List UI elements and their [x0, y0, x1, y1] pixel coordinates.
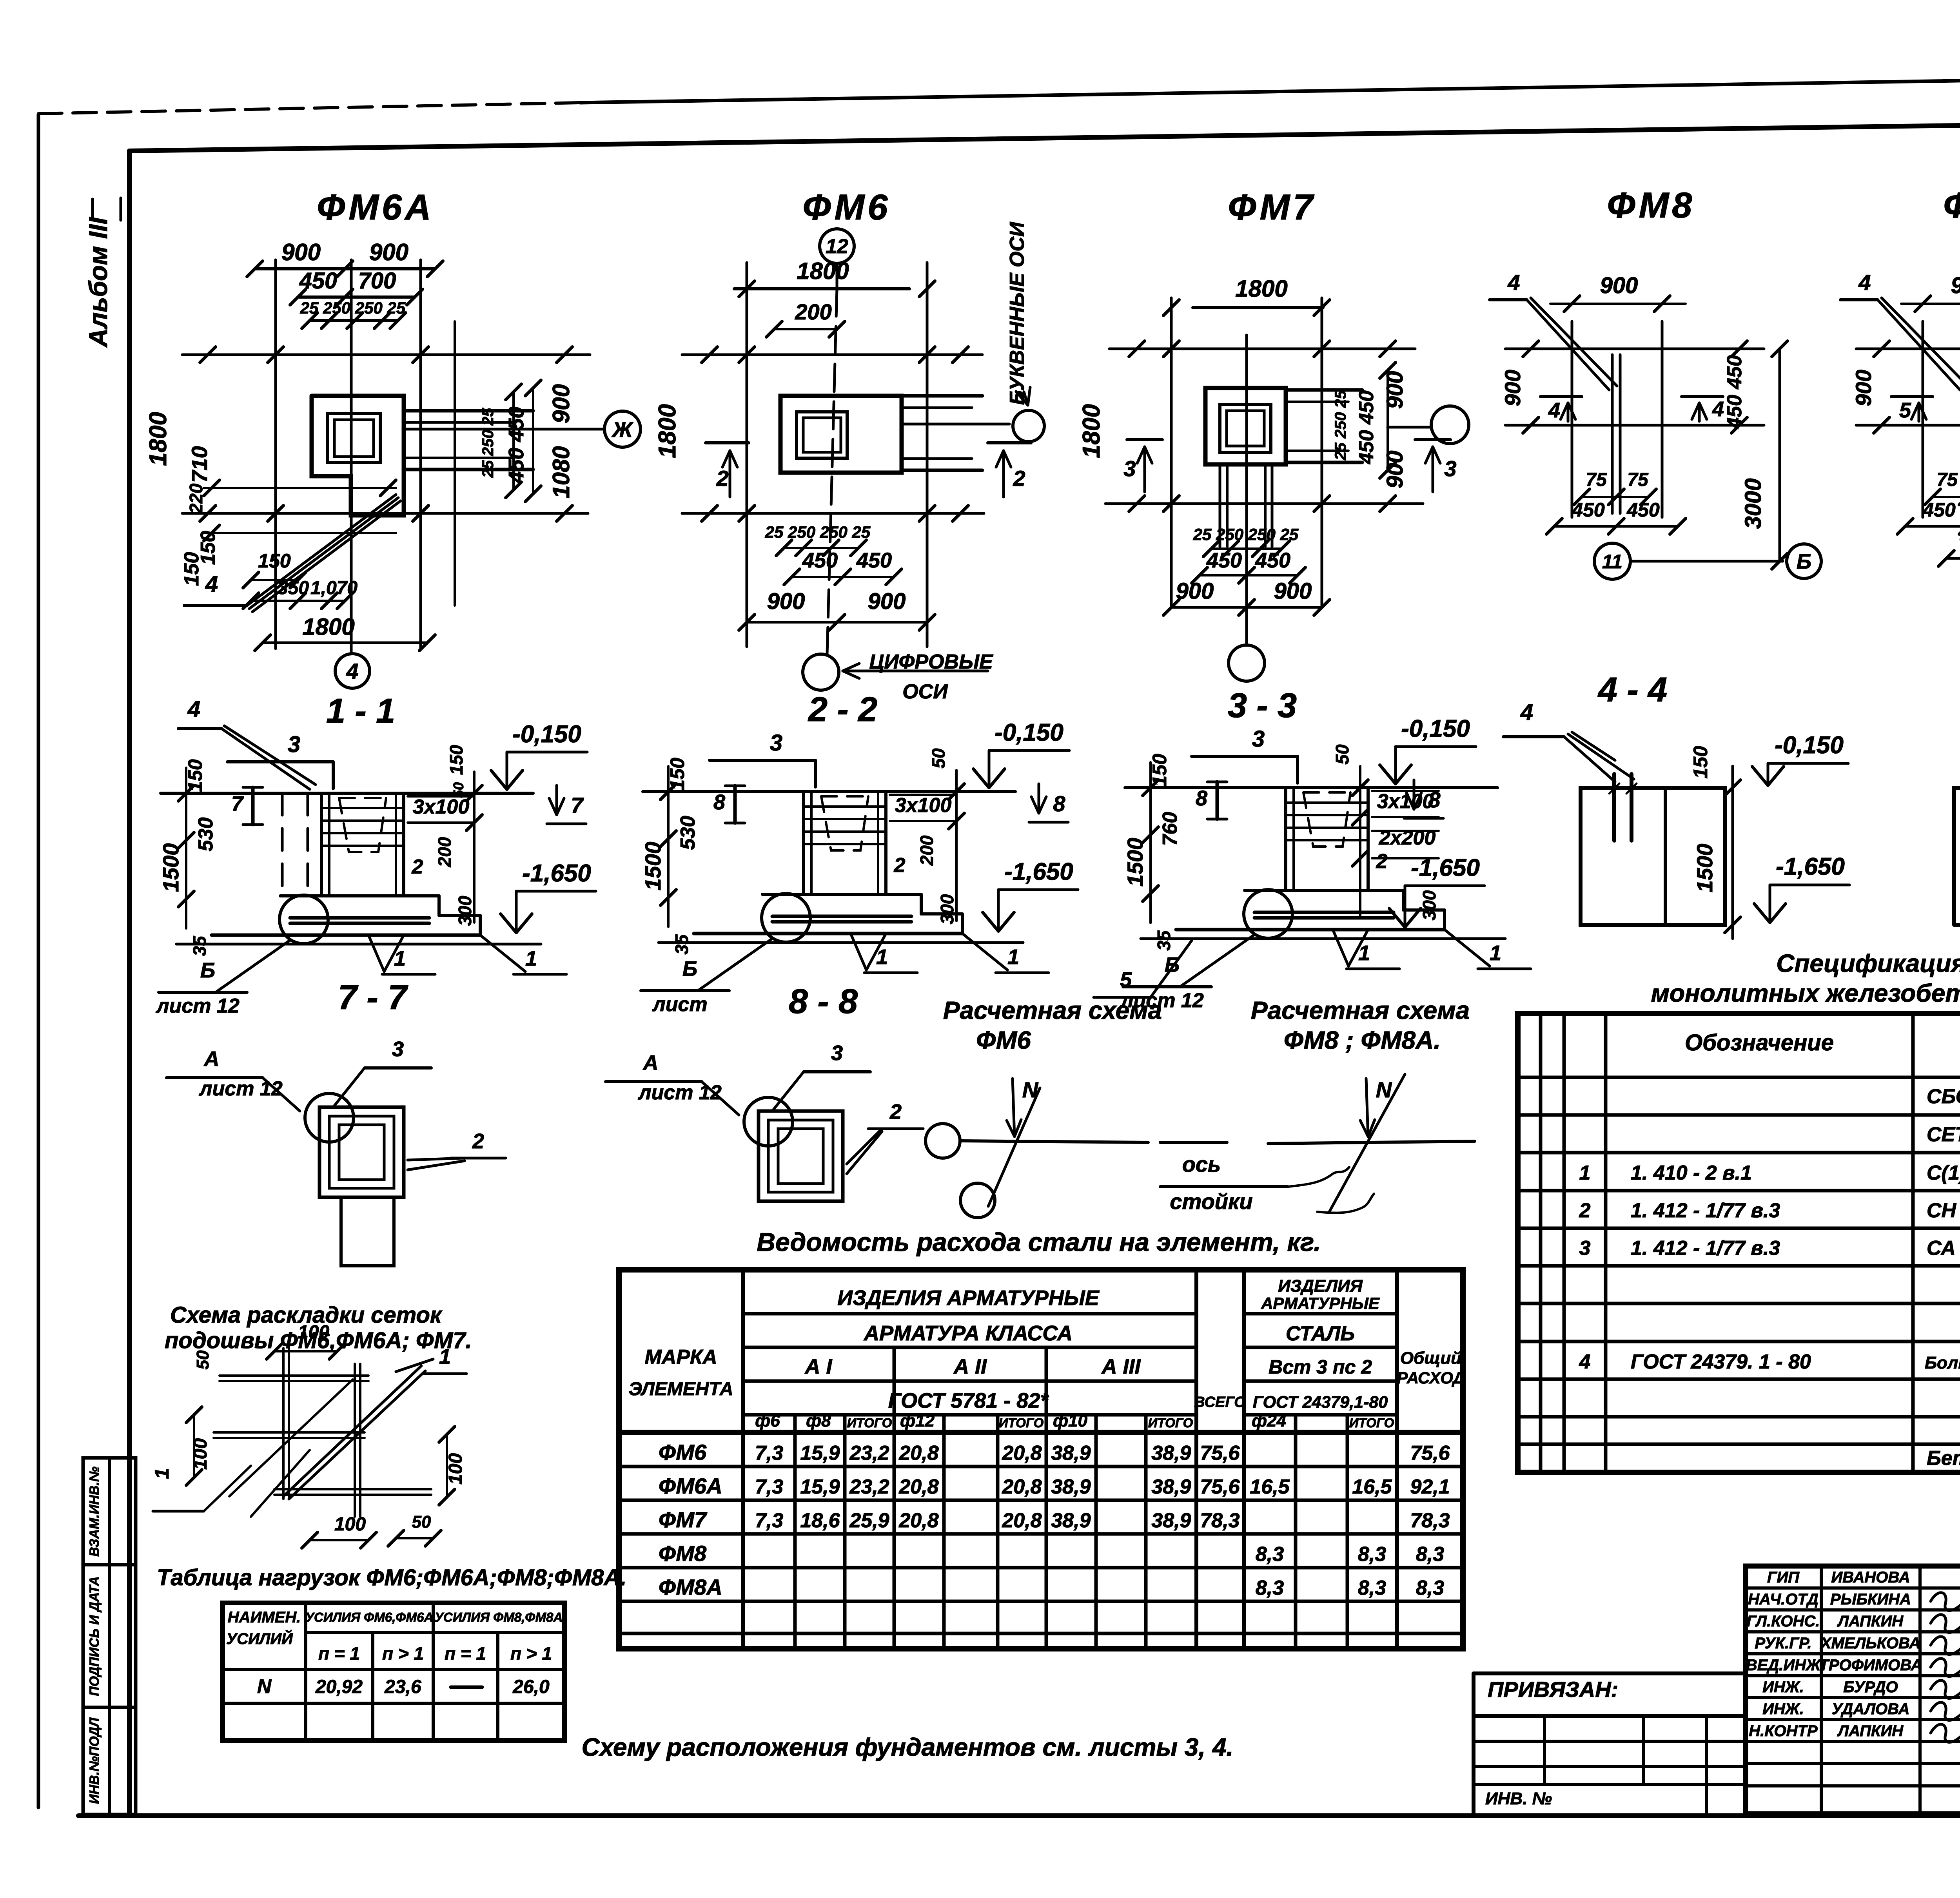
svg-text:ЭЛЕМЕНТА: ЭЛЕМЕНТА — [628, 1379, 733, 1399]
svg-text:ФМ6А: ФМ6А — [317, 187, 434, 227]
svg-text:стойки: стойки — [1170, 1189, 1252, 1214]
plan FM6A main horizontal axis — [182, 353, 590, 356]
plan FM7 section marker 3 right — [1415, 438, 1450, 441]
detail 7 - 7 pedestal below — [341, 1197, 394, 1266]
plan FM6 beam lines to right — [902, 394, 982, 398]
svg-text:3: 3 — [1579, 1237, 1591, 1260]
svg-text:15,9: 15,9 — [800, 1476, 840, 1498]
plan FM6A stakan inner squares — [327, 413, 380, 462]
svg-text:1: 1 — [394, 947, 406, 970]
section 3 - 3 detail circle — [1244, 890, 1292, 938]
plan FM6A pad outline — [312, 396, 404, 515]
svg-text:16,5: 16,5 — [1352, 1476, 1392, 1498]
mesh layout diagonal — [283, 1366, 421, 1496]
svg-text:450: 450 — [1572, 499, 1605, 521]
plan FM7 main horizontal axis — [1109, 348, 1415, 350]
plan ФМ8А section marker left — [1891, 395, 1933, 398]
svg-text:А: А — [203, 1047, 220, 1071]
svg-text:900: 900 — [1382, 451, 1408, 489]
svg-text:11: 11 — [1602, 551, 1622, 573]
svg-text:НАИМЕН.: НАИМЕН. — [228, 1609, 301, 1626]
svg-text:900: 900 — [281, 239, 321, 265]
svg-text:20,8: 20,8 — [898, 1442, 938, 1465]
svg-text:25 250 25: 25 250 25 — [1332, 390, 1349, 460]
svg-text:450: 450 — [856, 549, 892, 572]
svg-text:ПОДПИСЬ И ДАТА: ПОДПИСЬ И ДАТА — [87, 1576, 102, 1696]
svg-text:N: N — [1022, 1077, 1039, 1102]
steel table grid — [619, 1270, 1463, 1649]
svg-text:150: 150 — [180, 552, 203, 586]
section 3 - 3 footing mesh bars — [1254, 911, 1394, 914]
svg-text:ИТОГО: ИТОГО — [1148, 1416, 1193, 1430]
svg-text:38,9: 38,9 — [1051, 1476, 1091, 1498]
svg-text:100: 100 — [445, 1453, 466, 1485]
svg-text:ХМЕЛЬКОВА: ХМЕЛЬКОВА — [1820, 1635, 1920, 1652]
svg-text:Схему расположения фундаменто: Схему расположения фундаментов см. листы… — [582, 1733, 1234, 1761]
svg-text:1800: 1800 — [654, 404, 681, 458]
plan FM7 right axis circle — [1388, 426, 1431, 429]
plan FM7 beam right — [1286, 388, 1362, 392]
plan FM6 lower horizontal axis — [682, 512, 984, 515]
svg-text:20,8: 20,8 — [1002, 1476, 1042, 1498]
section 1 - 1 left dim stack — [185, 768, 187, 928]
svg-text:ФМ8: ФМ8 — [1607, 185, 1695, 225]
svg-text:А I: А I — [804, 1355, 832, 1378]
svg-text:Б: Б — [200, 959, 215, 982]
svg-text:ВЗАМ.ИНВ.№: ВЗАМ.ИНВ.№ — [87, 1467, 102, 1557]
svg-text:-0,150: -0,150 — [1401, 715, 1470, 742]
svg-text:лист 12: лист 12 — [198, 1077, 283, 1100]
plan ФМ8 anchor bolts — [1611, 355, 1614, 513]
svg-text:ФМ6: ФМ6 — [803, 187, 891, 227]
svg-text:900: 900 — [1176, 578, 1214, 604]
svg-text:3: 3 — [1444, 456, 1456, 481]
svg-text:3: 3 — [288, 732, 300, 757]
axis circle 12 top — [820, 229, 854, 263]
svg-text:лист 12: лист 12 — [155, 995, 240, 1017]
plan ФМ8 upper horizontal line — [1505, 348, 1764, 350]
svg-text:7,3: 7,3 — [755, 1509, 783, 1532]
svg-text:ФМ7: ФМ7 — [659, 1507, 708, 1532]
svg-text:8,3: 8,3 — [1416, 1577, 1444, 1599]
svg-text:УСИЛИЙ: УСИЛИЙ — [226, 1629, 293, 1648]
svg-text:Вст 3 пс 2: Вст 3 пс 2 — [1269, 1356, 1372, 1378]
svg-text:3: 3 — [1252, 726, 1265, 752]
plan FM7 column below pad — [1219, 464, 1221, 547]
plan FM6A lower horizontal axis — [182, 512, 588, 515]
svg-text:530: 530 — [194, 818, 217, 852]
svg-text:УСИЛИЯ ФМ8,ФМ8А: УСИЛИЯ ФМ8,ФМ8А — [435, 1610, 563, 1624]
svg-text:900: 900 — [767, 589, 805, 614]
svg-text:38,9: 38,9 — [1151, 1442, 1191, 1465]
svg-text:220: 220 — [186, 483, 206, 514]
svg-text:900: 900 — [1851, 370, 1876, 406]
design scheme FM8 drawing — [1268, 1141, 1475, 1144]
title block outline — [1746, 1566, 1960, 1814]
svg-text:1: 1 — [1007, 945, 1019, 969]
plan FM6 vertical axes — [746, 263, 748, 647]
sheet inner frame — [127, 151, 132, 1816]
svg-text:Спецификация групповая: Спецификация групповая — [1776, 949, 1960, 977]
plan FM6A mesh leader fan — [184, 604, 247, 607]
svg-text:1: 1 — [1579, 1162, 1591, 1184]
svg-text:78,3: 78,3 — [1200, 1509, 1240, 1532]
detail 8 - 8 circle — [744, 1097, 793, 1146]
plan ФМ8 leader 4 top-left — [1490, 298, 1527, 301]
svg-text:Расчетная схема: Расчетная схема — [1251, 996, 1470, 1024]
svg-text:ф12: ф12 — [900, 1411, 935, 1430]
svg-text:8,3: 8,3 — [1358, 1543, 1386, 1566]
svg-text:Обозначение: Обозначение — [1685, 1030, 1834, 1055]
svg-text:п > 1: п > 1 — [510, 1643, 552, 1664]
plan FM6A right dim verticals — [512, 392, 515, 490]
svg-text:С(1) 10А III -16 х18: С(1) 10А III -16 х18 — [1927, 1162, 1960, 1184]
svg-text:2: 2 — [889, 1100, 902, 1124]
section 3 - 3 stirrups — [1286, 801, 1368, 804]
mesh layout drawing — [220, 1374, 368, 1377]
svg-text:1. 412 - 1/77 в.3: 1. 412 - 1/77 в.3 — [1631, 1237, 1780, 1260]
svg-text:1. 412 - 1/77 в.3: 1. 412 - 1/77 в.3 — [1631, 1199, 1780, 1222]
section 2 - 2 right dim vertical — [955, 770, 958, 921]
plan FM7 bottom axis circle — [1229, 645, 1265, 681]
section 3 - 3 footing slab — [1245, 889, 1403, 892]
svg-text:92,1: 92,1 — [1410, 1476, 1450, 1498]
svg-text:200: 200 — [916, 835, 937, 866]
section 3 - 3 ground line — [1125, 786, 1497, 789]
svg-text:16,5: 16,5 — [1250, 1476, 1290, 1498]
letter axis circle — [1013, 410, 1044, 442]
svg-text:ф6: ф6 — [755, 1411, 780, 1430]
digit axes note — [843, 670, 988, 673]
plan FM6 section marker 2 right — [988, 441, 1031, 444]
detail 8 - 8 nested squares — [759, 1111, 843, 1201]
svg-text:N: N — [257, 1675, 272, 1697]
privyazan block — [1474, 1671, 1746, 1675]
svg-text:450: 450 — [1626, 499, 1660, 521]
svg-text:300: 300 — [1419, 890, 1439, 920]
section 2 - 2 left dim stack — [667, 766, 670, 927]
svg-text:ФМ8 ; ФМ8А.: ФМ8 ; ФМ8А. — [1284, 1026, 1441, 1054]
svg-text:ИТОГО: ИТОГО — [1349, 1416, 1394, 1430]
svg-text:75: 75 — [1936, 470, 1958, 490]
svg-text:ЛАПКИН: ЛАПКИН — [1837, 1722, 1904, 1740]
section 3 - 3 right dim vertical — [1359, 766, 1361, 917]
svg-text:АРМАТУРНЫЕ: АРМАТУРНЫЕ — [1261, 1294, 1380, 1312]
svg-text:ИНЖ.: ИНЖ. — [1762, 1700, 1804, 1718]
svg-text:4: 4 — [1548, 399, 1560, 422]
svg-text:1800: 1800 — [1078, 404, 1105, 458]
axis circle 4 bottom — [335, 654, 370, 688]
section 1 - 1 detail circle — [279, 895, 328, 944]
svg-text:БУКВЕННЫЕ ОСИ: БУКВЕННЫЕ ОСИ — [1006, 221, 1029, 405]
svg-text:200: 200 — [434, 837, 455, 867]
svg-text:2: 2 — [472, 1129, 484, 1153]
svg-text:РУК.ГР.: РУК.ГР. — [1755, 1635, 1811, 1652]
section 3 - 3 left dim stack — [1149, 762, 1152, 923]
section 4-4 body — [1581, 788, 1725, 925]
svg-text:2: 2 — [894, 854, 906, 877]
svg-text:710: 710 — [187, 446, 212, 482]
plan FM6A dimension 450+700 — [298, 295, 415, 299]
plan FM6 section marker 2 left — [706, 441, 749, 444]
svg-text:150: 150 — [1149, 754, 1171, 787]
svg-text:3х100: 3х100 — [413, 796, 470, 818]
svg-text:УСИЛИЯ ФМ6,ФМ6А: УСИЛИЯ ФМ6,ФМ6А — [305, 1610, 434, 1624]
svg-text:4 - 4: 4 - 4 — [1597, 670, 1667, 709]
svg-text:ВСЕГО: ВСЕГО — [1194, 1394, 1246, 1410]
svg-text:8: 8 — [1428, 787, 1441, 812]
svg-text:ФМ8А: ФМ8А — [659, 1575, 722, 1599]
svg-text:ГИП: ГИП — [1767, 1569, 1800, 1586]
svg-text:450: 450 — [1255, 549, 1290, 572]
plan FM6A beam center line to axis circle Zh — [404, 428, 604, 431]
svg-text:8 - 8: 8 - 8 — [789, 982, 858, 1021]
svg-text:23,2: 23,2 — [849, 1476, 889, 1498]
svg-text:20,8: 20,8 — [1002, 1509, 1042, 1532]
svg-text:25 250 250 25: 25 250 250 25 — [300, 299, 406, 317]
section 1 - 1 column walls — [320, 793, 323, 896]
svg-text:ФМ6А: ФМ6А — [659, 1474, 722, 1498]
svg-text:15,9: 15,9 — [800, 1442, 840, 1465]
svg-text:38,9: 38,9 — [1151, 1476, 1191, 1498]
plan ФМ8 section marker left — [1541, 395, 1582, 398]
svg-text:150: 150 — [446, 745, 466, 775]
svg-text:4: 4 — [1858, 270, 1871, 295]
svg-text:35: 35 — [189, 935, 210, 956]
plan FM6 centre axis vertical — [827, 289, 837, 654]
svg-text:150: 150 — [258, 550, 291, 572]
svg-text:3 - 3: 3 - 3 — [1228, 686, 1297, 725]
plan FM7 lower horizontal axis — [1105, 502, 1423, 505]
svg-text:450 450: 450 450 — [1355, 390, 1378, 464]
svg-text:2: 2 — [412, 856, 423, 878]
svg-text:ЛАПКИН: ЛАПКИН — [1837, 1613, 1904, 1630]
section 5-5 body — [1954, 788, 1960, 925]
svg-text:-1,650: -1,650 — [522, 860, 591, 887]
svg-text:3: 3 — [831, 1041, 843, 1065]
svg-text:лист: лист — [652, 993, 707, 1016]
section 3 - 3 leader 1 triangles — [1333, 930, 1348, 966]
svg-text:50: 50 — [412, 1512, 431, 1532]
svg-text:38,9: 38,9 — [1051, 1442, 1091, 1465]
svg-text:1800: 1800 — [797, 258, 849, 284]
section 4-4 dowel bars — [1612, 774, 1616, 841]
plan FM6 stakan — [797, 412, 847, 458]
svg-text:ИЗДЕЛИЯ АРМАТУРНЫЕ: ИЗДЕЛИЯ АРМАТУРНЫЕ — [837, 1286, 1100, 1310]
svg-text:75,6: 75,6 — [1200, 1476, 1240, 1498]
svg-text:7 - 7: 7 - 7 — [338, 978, 408, 1017]
svg-text:3: 3 — [392, 1037, 404, 1061]
plan ФМ8 section marker right — [1682, 395, 1723, 398]
svg-text:8,3: 8,3 — [1416, 1543, 1444, 1566]
svg-text:450: 450 — [299, 268, 338, 294]
svg-text:38,9: 38,9 — [1051, 1509, 1091, 1532]
svg-text:А: А — [642, 1051, 659, 1075]
plan ФМ8 lower horizontal line — [1505, 424, 1764, 427]
svg-text:1: 1 — [876, 945, 888, 969]
svg-text:8,3: 8,3 — [1256, 1577, 1284, 1599]
plan FM6 pad outline — [780, 396, 902, 473]
section 2 - 2 detail circle — [762, 894, 810, 942]
svg-text:СТАЛЬ: СТАЛЬ — [1286, 1322, 1355, 1345]
svg-text:1: 1 — [1358, 941, 1370, 965]
svg-text:УДАЛОВА: УДАЛОВА — [1832, 1700, 1910, 1718]
svg-text:25 250 250 25: 25 250 250 25 — [1193, 525, 1299, 544]
svg-text:75: 75 — [1627, 470, 1649, 490]
svg-text:38,9: 38,9 — [1151, 1509, 1191, 1532]
svg-text:Альбом III: Альбом III — [83, 217, 113, 348]
svg-text:450 450: 450 450 — [1723, 355, 1746, 429]
svg-text:А III: А III — [1101, 1355, 1141, 1378]
svg-text:7,3: 7,3 — [755, 1442, 783, 1465]
plan FM6A dimension 25 250 250 25 — [310, 319, 398, 322]
svg-text:1800: 1800 — [302, 614, 354, 640]
svg-text:ГОСТ 5781 - 82*: ГОСТ 5781 - 82* — [888, 1389, 1050, 1412]
plan ФМ8А upper horizontal line — [1856, 348, 1960, 350]
svg-text:СА - 8А I: СА - 8А I — [1927, 1237, 1960, 1260]
svg-text:4: 4 — [346, 659, 358, 683]
design scheme FM6 N arrow — [1013, 1079, 1014, 1137]
svg-text:п = 1: п = 1 — [318, 1643, 360, 1664]
svg-text:ОСИ: ОСИ — [902, 680, 948, 703]
svg-text:450: 450 — [802, 549, 838, 572]
plan FM6 dim 200 — [774, 328, 837, 330]
svg-text:ЦИФРОВЫЕ: ЦИФРОВЫЕ — [869, 651, 993, 673]
svg-text:СН 12А II - 6 х15: СН 12А II - 6 х15 — [1927, 1199, 1960, 1222]
design scheme FM6 lower circle — [960, 1183, 995, 1218]
svg-text:ФМ7: ФМ7 — [1228, 187, 1316, 227]
svg-text:900: 900 — [369, 239, 408, 265]
section 2 - 2 cup dashed — [821, 796, 868, 850]
svg-text:25 250 250 25: 25 250 250 25 — [765, 523, 871, 541]
svg-text:ИТОГО: ИТОГО — [999, 1416, 1044, 1430]
design scheme FM8 N arrow — [1366, 1079, 1368, 1137]
svg-text:-1,650: -1,650 — [1004, 858, 1073, 885]
svg-text:7: 7 — [231, 792, 244, 816]
axis circle Zh — [604, 411, 641, 447]
svg-text:Б: Б — [1797, 550, 1811, 573]
svg-text:ф8: ф8 — [806, 1411, 831, 1430]
svg-text:ИНВ. №: ИНВ. № — [1485, 1789, 1552, 1808]
svg-text:Ведомость расхода стали на: Ведомость расхода стали на элемент, кг. — [757, 1227, 1321, 1256]
specification grid — [1518, 1013, 1960, 1472]
detail 7 - 7 circle — [305, 1093, 354, 1142]
svg-text:1 - 1: 1 - 1 — [326, 691, 395, 730]
svg-text:3: 3 — [770, 730, 782, 756]
section 3 - 3 leader B list — [1180, 935, 1254, 987]
plan FM7 vertical axes — [1170, 298, 1173, 605]
detail 7 - 7 nested squares — [319, 1107, 404, 1197]
svg-text:35: 35 — [1154, 930, 1174, 951]
left margin stamp boxes — [83, 1458, 136, 1815]
svg-text:БУРДО: БУРДО — [1843, 1679, 1898, 1696]
section 1 - 1 footing slab — [280, 894, 439, 897]
svg-text:ИВАНОВА: ИВАНОВА — [1831, 1569, 1910, 1586]
svg-text:Таблица нагрузок ФМ6;ФМ6А;ФМ8;: Таблица нагрузок ФМ6;ФМ6А;ФМ8;ФМ8А. — [157, 1565, 626, 1590]
svg-text:ВЕД.ИНЖ: ВЕД.ИНЖ — [1746, 1657, 1821, 1674]
svg-text:20,8: 20,8 — [898, 1476, 938, 1498]
svg-text:ФМ8А: ФМ8А — [1943, 185, 1960, 225]
svg-text:1080: 1080 — [548, 446, 574, 498]
svg-text:1: 1 — [151, 1468, 173, 1479]
svg-text:-1,650: -1,650 — [1411, 854, 1480, 881]
sheet outer border — [37, 114, 40, 1807]
svg-text:ИТОГО: ИТОГО — [847, 1416, 892, 1430]
svg-text:530: 530 — [677, 816, 699, 850]
svg-text:25,9: 25,9 — [849, 1509, 889, 1532]
svg-text:А II: А II — [953, 1355, 987, 1378]
svg-text:23,2: 23,2 — [849, 1442, 889, 1465]
section 3 - 3 ground bottom line — [1141, 937, 1505, 940]
svg-text:Н.КОНТР: Н.КОНТР — [1749, 1722, 1817, 1740]
svg-text:3х100: 3х100 — [895, 794, 952, 817]
section 1 - 1 footing mesh bars — [290, 916, 429, 920]
svg-text:ТРОФИМОВА: ТРОФИМОВА — [1819, 1657, 1922, 1674]
svg-text:25 250 25: 25 250 25 — [479, 408, 497, 478]
svg-text:Общий: Общий — [1400, 1349, 1461, 1368]
section 2 - 2 leader 1 triangles — [851, 934, 866, 970]
svg-text:СБОРОЧНЫЕ ЕДИНИЦЫ: СБОРОЧНЫЕ ЕДИНИЦЫ — [1927, 1085, 1960, 1108]
svg-text:ПРИВЯЗАН:: ПРИВЯЗАН: — [1488, 1677, 1618, 1702]
svg-text:900: 900 — [1382, 371, 1408, 409]
plan FM6A right beam — [404, 409, 533, 413]
svg-text:450 450: 450 450 — [505, 406, 528, 483]
title block personnel columns — [1820, 1566, 1823, 1814]
svg-text:4: 4 — [1507, 270, 1520, 295]
load table grid — [223, 1603, 564, 1740]
svg-text:5: 5 — [1120, 968, 1132, 992]
section 2 - 2 marker 8 right — [1038, 784, 1040, 813]
svg-text:150: 150 — [1690, 746, 1711, 779]
section 2 - 2 footing mesh bars — [772, 915, 911, 918]
svg-text:8,3: 8,3 — [1358, 1577, 1386, 1599]
svg-text:-1,650: -1,650 — [1776, 853, 1845, 880]
svg-text:300: 300 — [937, 894, 957, 924]
plan ФМ8А leader 4 top-left — [1840, 298, 1878, 301]
plan ФМ8А top dim 900 — [1901, 303, 1960, 305]
plan ФМ8 vertical axis lines — [1571, 321, 1573, 517]
svg-text:N: N — [1376, 1077, 1392, 1102]
svg-text:1. 410 - 2 в.1: 1. 410 - 2 в.1 — [1631, 1162, 1752, 1184]
svg-text:8,3: 8,3 — [1256, 1543, 1284, 1566]
plan ФМ8А lower horizontal line — [1856, 424, 1960, 427]
svg-text:2 - 2: 2 - 2 — [808, 690, 877, 729]
svg-text:1: 1 — [1490, 941, 1501, 965]
svg-text:100: 100 — [298, 1322, 329, 1343]
svg-text:8: 8 — [713, 790, 725, 814]
svg-text:35: 35 — [671, 934, 692, 955]
svg-text:900: 900 — [1274, 578, 1312, 604]
svg-text:монолитных железобетонных: монолитных железобетонных конструкций. — [1651, 979, 1960, 1007]
svg-text:2: 2 — [1376, 850, 1388, 873]
svg-text:1500: 1500 — [1123, 838, 1147, 887]
svg-text:ГОСТ 24379,1-80: ГОСТ 24379,1-80 — [1253, 1393, 1388, 1412]
svg-text:75,6: 75,6 — [1410, 1442, 1450, 1465]
svg-text:200: 200 — [795, 299, 831, 324]
svg-text:300: 300 — [455, 896, 475, 926]
svg-text:АРМАТУРА КЛАССА: АРМАТУРА КЛАССА — [863, 1322, 1073, 1345]
svg-text:ГОСТ 24379. 1 - 80: ГОСТ 24379. 1 - 80 — [1631, 1351, 1811, 1373]
svg-text:-0,150: -0,150 — [512, 721, 581, 748]
plan FM6A intermediate h-lines — [204, 487, 396, 489]
plan FM6A top dimension 900+900 — [255, 267, 435, 270]
svg-text:50: 50 — [928, 748, 949, 769]
svg-text:п > 1: п > 1 — [382, 1643, 424, 1664]
axis circle bottom (digit axes) — [803, 654, 839, 690]
svg-text:п = 1: п = 1 — [445, 1643, 486, 1664]
svg-text:Ж: Ж — [611, 417, 634, 442]
svg-text:26,0: 26,0 — [512, 1677, 550, 1697]
